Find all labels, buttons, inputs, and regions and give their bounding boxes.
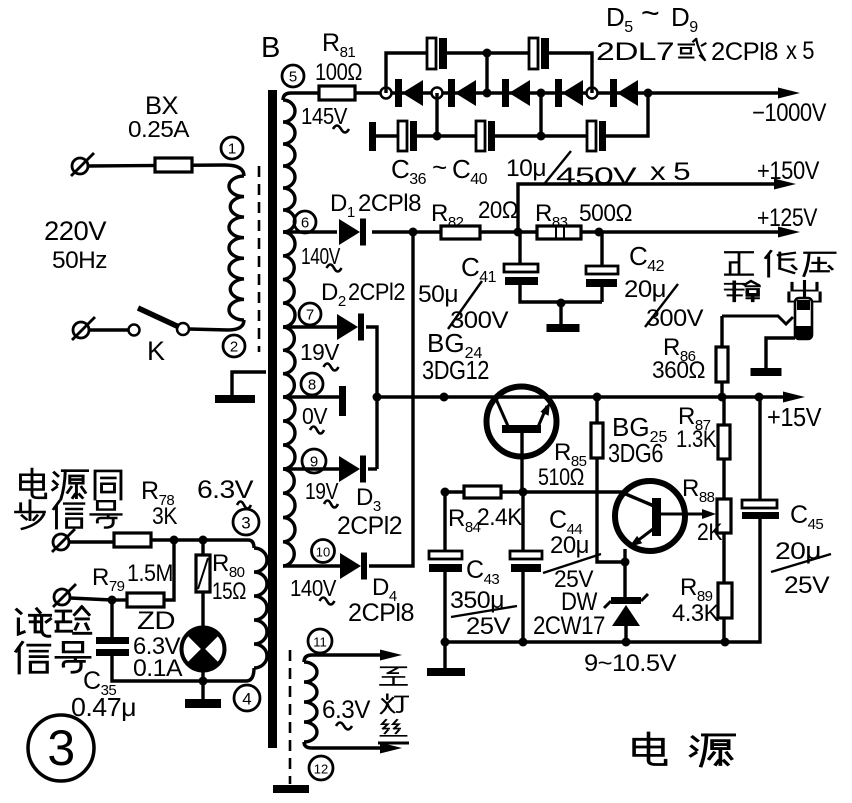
svg-text:2CPl8: 2CPl8: [358, 190, 421, 217]
svg-text:0.25A: 0.25A: [128, 116, 190, 142]
svg-text:3DG12: 3DG12: [422, 355, 489, 385]
svg-text:2K: 2K: [697, 519, 722, 546]
svg-text:20μ: 20μ: [624, 276, 666, 303]
svg-text:B: B: [261, 32, 280, 64]
svg-text:2CPl8: 2CPl8: [711, 38, 778, 66]
svg-text:220V: 220V: [44, 216, 106, 246]
svg-text:10: 10: [316, 545, 330, 560]
svg-text:20Ω: 20Ω: [478, 197, 518, 224]
svg-text:9~10.5V: 9~10.5V: [584, 650, 677, 677]
svg-text:x 5: x 5: [650, 158, 690, 186]
svg-text:6.3V: 6.3V: [197, 476, 254, 504]
svg-text:140V: 140V: [301, 243, 341, 269]
svg-text:500Ω: 500Ω: [579, 200, 632, 227]
svg-text:3K: 3K: [152, 503, 177, 530]
svg-text:5: 5: [289, 69, 297, 86]
svg-text:1: 1: [228, 141, 236, 158]
svg-text:−1000V: −1000V: [752, 99, 827, 127]
svg-text:2CPl2: 2CPl2: [337, 512, 402, 540]
svg-text:7: 7: [306, 307, 314, 324]
svg-text:360Ω: 360Ω: [652, 357, 705, 384]
svg-text:x 5: x 5: [786, 37, 814, 65]
svg-text:50Hz: 50Hz: [52, 247, 107, 274]
svg-text:0V: 0V: [302, 403, 328, 429]
svg-text:300V: 300V: [646, 305, 704, 332]
svg-text:50μ: 50μ: [418, 281, 458, 308]
svg-text:+15V: +15V: [767, 402, 822, 432]
svg-text:510Ω: 510Ω: [538, 464, 584, 491]
svg-text:2CW17: 2CW17: [533, 612, 605, 640]
svg-text:~: ~: [641, 0, 659, 31]
svg-text:3DG6: 3DG6: [608, 438, 663, 468]
svg-text:4.3K: 4.3K: [672, 600, 719, 627]
svg-text:3: 3: [241, 514, 250, 533]
svg-text:~: ~: [432, 152, 447, 182]
svg-text:2: 2: [230, 339, 238, 356]
svg-text:K: K: [147, 336, 165, 366]
svg-text:15Ω: 15Ω: [212, 578, 246, 605]
svg-text:12: 12: [314, 762, 328, 777]
svg-text:4: 4: [242, 690, 251, 709]
svg-text:20μ: 20μ: [775, 538, 821, 565]
svg-text:ZD: ZD: [137, 607, 175, 635]
svg-text:2CPl2: 2CPl2: [348, 279, 405, 306]
svg-text:6.3V: 6.3V: [322, 696, 371, 724]
svg-text:19V: 19V: [305, 478, 339, 504]
svg-text:25V: 25V: [466, 613, 511, 640]
svg-text:0.47μ: 0.47μ: [71, 692, 136, 722]
svg-text:20μ: 20μ: [550, 532, 589, 559]
svg-text:140V: 140V: [290, 575, 337, 601]
svg-text:10μ: 10μ: [506, 155, 546, 182]
svg-text:8: 8: [308, 377, 316, 394]
svg-text:+125V: +125V: [757, 204, 818, 232]
svg-text:1.3K: 1.3K: [676, 426, 716, 453]
svg-text:0.1A: 0.1A: [133, 655, 183, 682]
svg-text:25V: 25V: [784, 572, 830, 599]
svg-text:1.5M: 1.5M: [127, 560, 173, 587]
svg-text:450V: 450V: [556, 163, 637, 190]
svg-text:100Ω: 100Ω: [315, 59, 362, 86]
svg-text:11: 11: [313, 635, 327, 650]
svg-text:2CPl8: 2CPl8: [348, 599, 414, 627]
svg-text:6: 6: [301, 215, 309, 232]
svg-text:2DL7: 2DL7: [596, 38, 674, 66]
svg-text:3: 3: [47, 720, 74, 776]
svg-text:+150V: +150V: [757, 157, 820, 185]
svg-text:19V: 19V: [300, 339, 340, 365]
svg-text:145V: 145V: [301, 103, 348, 129]
svg-text:2.4K: 2.4K: [477, 504, 522, 531]
svg-text:25V: 25V: [554, 566, 593, 593]
